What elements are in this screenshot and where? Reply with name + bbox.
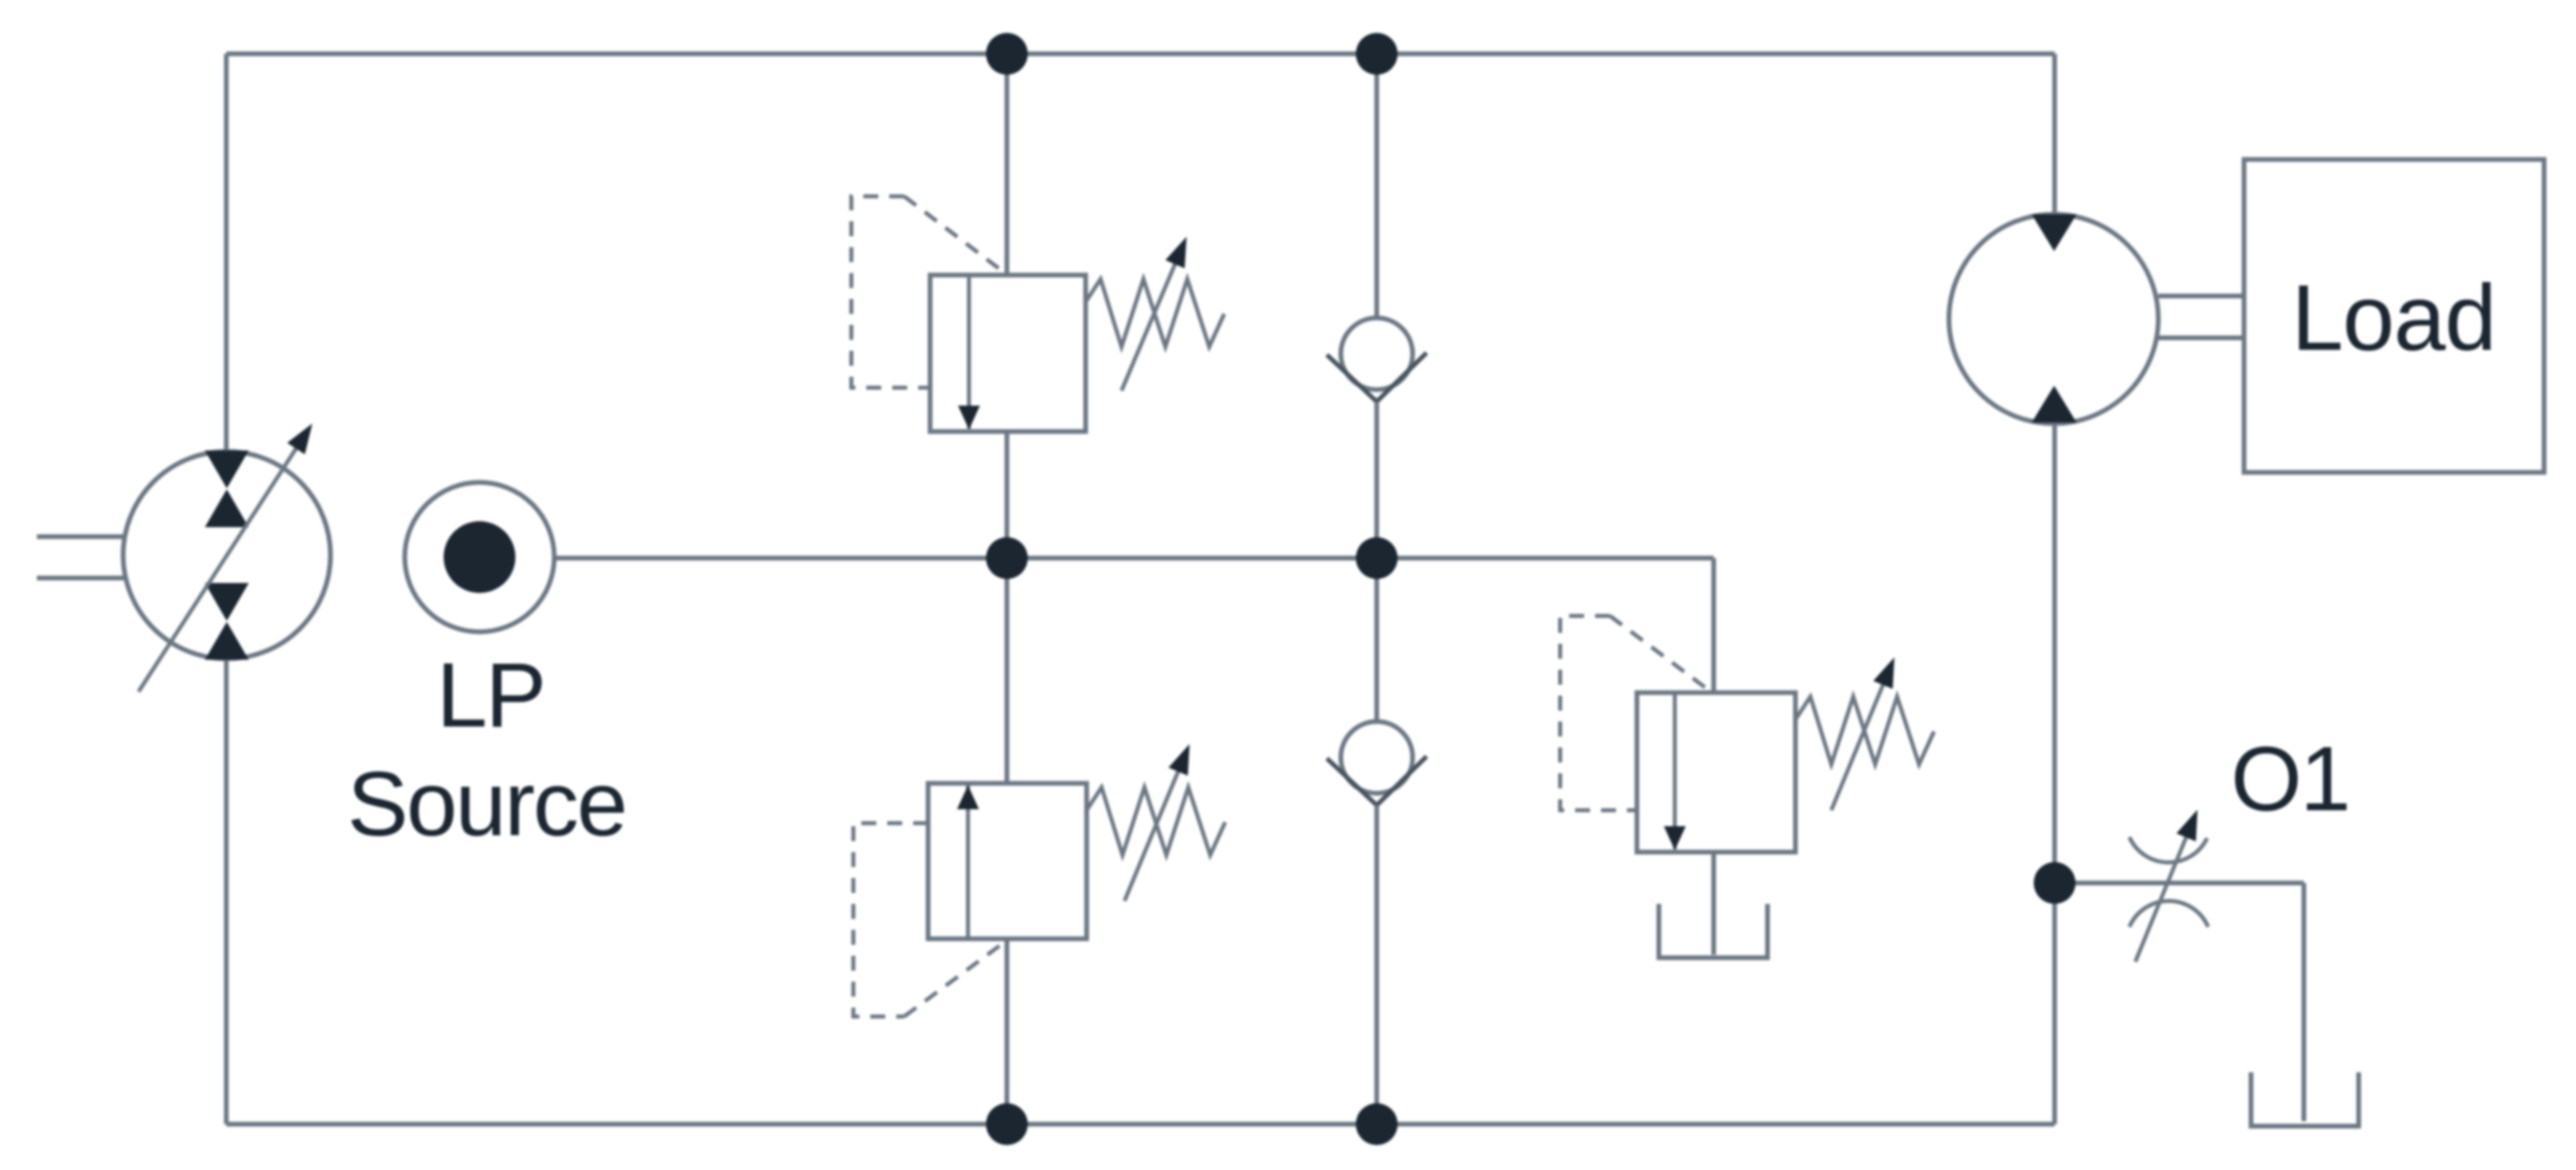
wire: left bus lower segment bbox=[224, 659, 229, 1124]
svg-text:LP: LP bbox=[437, 645, 545, 746]
relief valve V2 body bbox=[928, 783, 1087, 939]
junction node (1010,560) bbox=[986, 537, 1028, 579]
orifice O1 (variable restrictor arcs) bbox=[2129, 837, 2207, 862]
svg-text:Source: Source bbox=[347, 753, 626, 855]
relief valve V3 pilot line (dashed) bbox=[1560, 616, 1635, 810]
pump P1 upper flow bowtie bbox=[205, 450, 249, 488]
svg-text:Load: Load bbox=[2291, 265, 2495, 370]
relief valve V3 spring bbox=[1795, 697, 1934, 764]
junction node (1010,54) bbox=[986, 33, 1028, 75]
svg-text:O1: O1 bbox=[2231, 729, 2350, 830]
relief valve V1 spring bbox=[1086, 279, 1224, 347]
wire: left bus upper segment bbox=[224, 54, 229, 451]
relief valve V1 internal flow line + arrow (down) bbox=[967, 275, 971, 429]
relief valve V2 adjustment arrow bbox=[1125, 749, 1187, 901]
junction node (2061,886) bbox=[2034, 862, 2076, 904]
junction node (1381,560) bbox=[1356, 537, 1398, 579]
motor M1 bottom triangle bbox=[2032, 386, 2077, 423]
relief valve V2 spring bbox=[1087, 787, 1225, 855]
relief valve V1 pilot line (dashed) bbox=[851, 196, 928, 388]
wire: middle bus bbox=[1007, 556, 1714, 561]
tank T1 (below relief valve V3) bbox=[1659, 904, 1768, 958]
wire: right bus upper segment bbox=[2053, 54, 2058, 215]
motor M1 shaft lines bbox=[2158, 294, 2244, 299]
tank T2 (below orifice O1) bbox=[2251, 1072, 2359, 1126]
orifice O1 adjustment arrow bbox=[2135, 815, 2195, 962]
wire: relief valve V2 to bottom bus bbox=[1005, 939, 1010, 1124]
wire: check valve CV1 to middle bus bbox=[1375, 402, 1380, 558]
wire: middle bus to relief valve V2 bbox=[1005, 558, 1010, 783]
pump P1 (variable displacement, over-center) bbox=[124, 451, 331, 659]
relief valve V1 adjustment arrow bbox=[1122, 242, 1184, 391]
wire: top bus to check valve CV1 bbox=[1375, 54, 1380, 318]
wire: top bus to relief valve V1 bbox=[1005, 54, 1010, 275]
relief valve V3 internal flow line + arrow (down) bbox=[1673, 693, 1677, 849]
wire: bottom bus bbox=[226, 1122, 2055, 1127]
wire: middle bus to check valve CV2 bbox=[1375, 558, 1380, 722]
pump P1 variable-displacement arrow bbox=[139, 429, 309, 692]
relief valve V3 adjustment arrow bbox=[1831, 663, 1892, 810]
wire: top bus bbox=[226, 52, 2055, 57]
wire: right bus to orifice O1 bbox=[2055, 881, 2304, 886]
motor M1 (fixed displacement, bidirectional) bbox=[1949, 214, 2158, 424]
junction node (1381,1128) bbox=[1356, 1103, 1398, 1145]
wire: relief valve V3 to tank bbox=[1712, 852, 1717, 955]
wire: relief valve V1 to middle bus bbox=[1005, 432, 1010, 558]
wire: orifice O1 to tank bbox=[2302, 883, 2307, 1121]
pump P1 shaft lines bbox=[37, 534, 124, 539]
wire: middle bus drop to relief valve V3 bbox=[1712, 558, 1717, 693]
check valve CV1 (ball in seat) bbox=[1341, 318, 1413, 390]
wire: right bus lower segment bbox=[2053, 423, 2058, 1124]
relief valve V3 body bbox=[1637, 693, 1795, 852]
relief valve V2 internal flow line + arrow (up) bbox=[966, 785, 970, 939]
pump P1 lower flow bowtie bbox=[205, 583, 249, 621]
relief valve V1 body bbox=[930, 275, 1086, 432]
junction node (1381,54) bbox=[1356, 33, 1398, 75]
load box bbox=[2244, 159, 2544, 472]
wire: LP source to middle bus bbox=[554, 556, 1007, 561]
junction node (1010,1128) bbox=[986, 1103, 1028, 1145]
motor M1 top triangle bbox=[2032, 214, 2077, 251]
relief valve V2 pilot line (dashed) bbox=[853, 823, 928, 1017]
wire: check valve CV2 to bottom bus bbox=[1375, 805, 1380, 1124]
LP source symbol (circle with filled dot) bbox=[405, 482, 554, 632]
check valve CV2 (ball in seat) bbox=[1341, 722, 1413, 793]
